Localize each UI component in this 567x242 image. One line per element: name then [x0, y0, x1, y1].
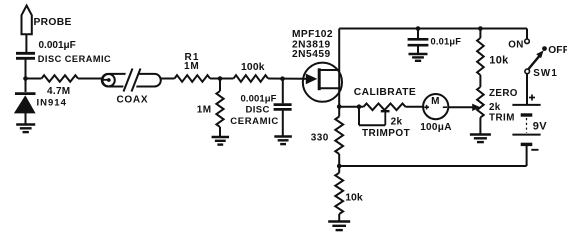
svg-text:TRIMPOT: TRIMPOT — [362, 128, 410, 139]
svg-text:2k: 2k — [391, 117, 403, 128]
svg-text:10k: 10k — [345, 192, 363, 204]
svg-text:0.01μF: 0.01μF — [431, 37, 462, 47]
svg-text:DISC: DISC — [246, 105, 270, 116]
svg-text:ZERO: ZERO — [489, 88, 518, 99]
svg-text:100μA: 100μA — [420, 122, 452, 133]
svg-text:2N5459: 2N5459 — [292, 49, 331, 60]
svg-text:DISC CERAMIC: DISC CERAMIC — [38, 54, 111, 64]
svg-text:0.001μF: 0.001μF — [39, 40, 76, 51]
svg-text:OFF: OFF — [548, 45, 567, 56]
svg-text:SW1: SW1 — [533, 68, 558, 79]
svg-text:CALIBRATE: CALIBRATE — [354, 87, 416, 98]
svg-text:MPF102: MPF102 — [292, 29, 333, 40]
svg-text:COAX: COAX — [117, 94, 149, 105]
svg-text:1M: 1M — [197, 105, 212, 116]
svg-text:100k: 100k — [241, 62, 265, 73]
svg-text:1M: 1M — [184, 61, 200, 72]
svg-text:4.7M: 4.7M — [47, 86, 70, 97]
svg-text:10k: 10k — [489, 55, 509, 67]
svg-text:CERAMIC: CERAMIC — [230, 116, 279, 127]
svg-text:TRIM: TRIM — [489, 112, 515, 123]
svg-text:ON: ON — [508, 39, 524, 50]
svg-text:M: M — [431, 96, 439, 107]
svg-text:330: 330 — [311, 132, 329, 143]
svg-text:0.001μF: 0.001μF — [241, 93, 277, 104]
svg-text:IN914: IN914 — [37, 98, 67, 109]
svg-text:9V: 9V — [533, 120, 547, 132]
svg-text:2k: 2k — [489, 102, 501, 113]
svg-text:PROBE: PROBE — [34, 17, 72, 28]
